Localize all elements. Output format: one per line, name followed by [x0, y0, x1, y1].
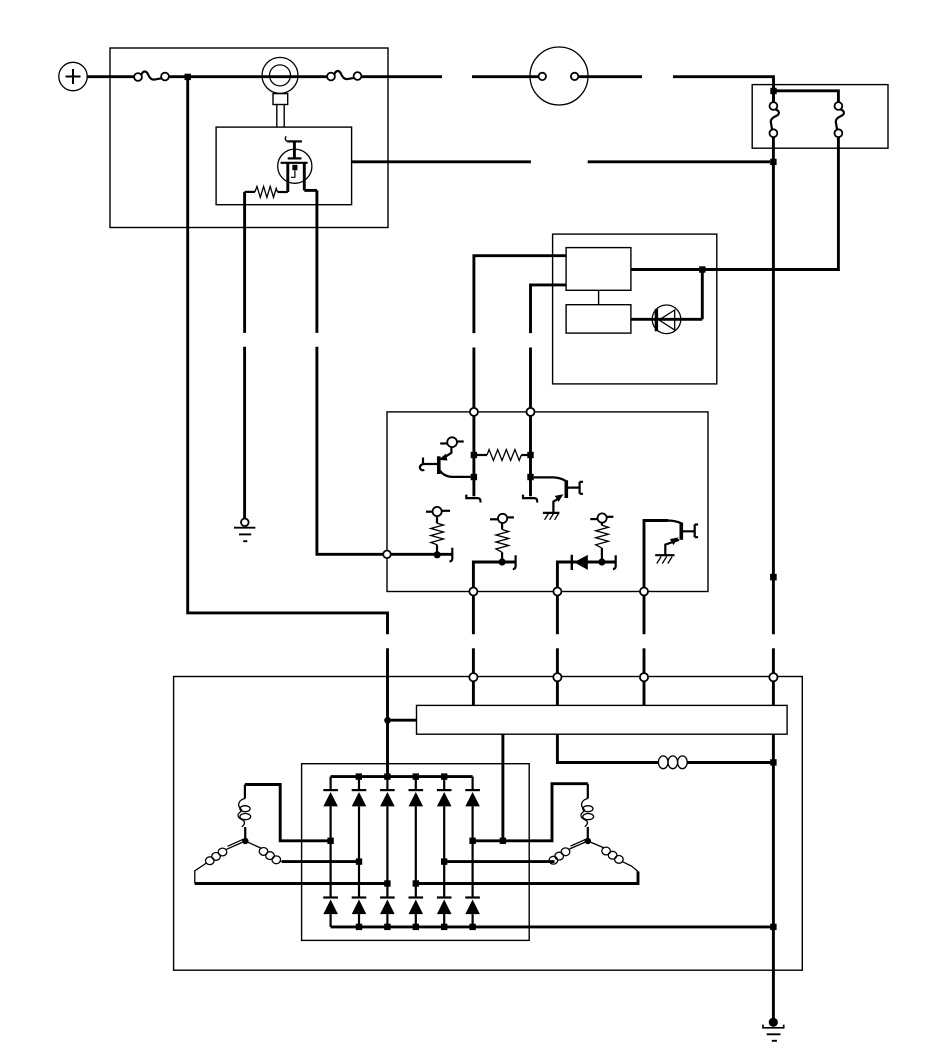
junction battery feed: [185, 74, 191, 80]
ELD output wire: [631, 268, 839, 271]
wire regulator terminal2 down: [556, 596, 559, 635]
ELD input wire 2: [531, 285, 567, 333]
right stator coil 3: [588, 841, 638, 872]
phase wire B left: [282, 860, 359, 863]
fusible link B: [327, 71, 361, 80]
wire dash to relay box: [673, 77, 774, 102]
diode column 6 top: [465, 777, 480, 898]
gauge assembly box: [110, 48, 388, 228]
ELD input wire 1: [474, 256, 566, 333]
junction brush bus: [384, 717, 391, 724]
phase wire A right: [473, 784, 588, 841]
diode column 2 bottom: [352, 898, 367, 927]
gauge unit legs: [288, 163, 305, 192]
right stator coil 1: [581, 784, 594, 841]
wire fuse C down long vertical: [772, 137, 775, 634]
wire regulator terminal3 down: [643, 596, 646, 635]
alternator box: [174, 677, 803, 971]
rectifier box: [302, 764, 530, 941]
top bus junctions: [356, 773, 362, 779]
junction alternator B wire: [770, 159, 776, 165]
field coil: [658, 756, 687, 769]
gauge unit circle: [278, 149, 312, 183]
diode column 1 top: [323, 777, 338, 898]
ELD sensor block: [566, 305, 631, 333]
pigtail terminal C combo1: [450, 548, 453, 562]
diode column 5 top: [437, 777, 452, 898]
gauge connector stem: [273, 94, 288, 128]
junction harness square: [770, 574, 777, 581]
junction relay feed: [770, 88, 776, 94]
wire fuse D down to ELD: [706, 137, 839, 270]
rectifier bottom bus: [331, 925, 774, 928]
junction field coil B: [770, 759, 776, 765]
wire gauge left leg down to ground: [243, 192, 246, 333]
rectifier top bus: [331, 775, 473, 778]
wire bus to rectifier right: [501, 734, 504, 841]
wire field coil to B line: [687, 761, 773, 764]
transistor Q4: [644, 521, 698, 592]
wire gauge unit to junction (left segment): [352, 160, 531, 163]
wire B line through alternator: [772, 734, 775, 1018]
pigtail terminal D1: [613, 555, 616, 569]
wire junction to brush bus: [388, 719, 417, 722]
pigtail terminal V1: [466, 495, 480, 503]
resistor gauge: [245, 186, 288, 197]
right stator coil 2: [549, 839, 588, 864]
transistor Q2: [534, 477, 583, 519]
diode column 4 top: [409, 777, 424, 898]
diode column 2 top: [352, 777, 367, 898]
ground alternator main: [763, 1018, 784, 1041]
junction ELD output: [699, 266, 705, 272]
diode column 4 bottom: [409, 898, 424, 927]
pigtail terminal V2: [523, 495, 537, 503]
junction bus feed right: [500, 838, 506, 844]
wire long B line down: [772, 648, 775, 673]
junction dots vertical1: [471, 452, 477, 458]
regulator terminal circles: [470, 408, 478, 416]
relay fuse box: [752, 85, 888, 149]
diode column 1 bottom: [323, 898, 338, 927]
diode column 6 bottom: [465, 898, 480, 927]
gauge unit contact element: [291, 165, 298, 178]
left stator coil 3: [245, 841, 282, 864]
alternator terminal circles: [469, 673, 477, 681]
fuse D: [835, 102, 844, 137]
regulator internal vertical 1: [472, 412, 475, 496]
wire battery to fuse A: [87, 75, 134, 78]
diode D1 with wire: [557, 555, 615, 592]
wire junction to fuse D: [776, 91, 838, 102]
resistor combo 2: [490, 514, 514, 566]
ELD control unit block: [566, 248, 631, 291]
ELD photocoupler: [652, 305, 681, 334]
resistor combo 3: [590, 513, 613, 565]
phase wire C right: [416, 872, 638, 884]
wire bus to field coil: [557, 734, 658, 762]
phase junction dots: [327, 838, 333, 844]
diode column 3 bottom: [380, 898, 395, 927]
wire gauge right leg to regulator: [304, 189, 317, 192]
diode column 5 bottom: [437, 898, 452, 927]
transistor Q1: [420, 437, 471, 477]
left stator coil 1: [238, 785, 251, 841]
fusible link A: [134, 72, 169, 81]
wire combo2 to terminal: [473, 562, 515, 592]
gauge unit bimetal bars: [281, 158, 308, 162]
left stator coil 2: [195, 839, 246, 883]
ignition switch: [530, 47, 588, 105]
right stator centre: [585, 838, 591, 844]
brush/terminal bus rectangle: [417, 705, 788, 734]
battery positive terminal: [59, 62, 87, 90]
bottom bus junctions: [356, 924, 362, 930]
fuse C: [770, 102, 779, 137]
wire regulator terminal1 down: [472, 596, 475, 635]
ground gauge: [234, 519, 255, 542]
wire fuse A to gauge: [169, 75, 328, 78]
ELD photocoupler leads: [631, 270, 702, 320]
regulator internal vertical 2: [529, 412, 532, 496]
gauge unit inner box: [216, 127, 352, 205]
phase wire B right: [444, 860, 554, 863]
link control-sensor: [598, 290, 600, 304]
gauge unit heater stem: [285, 136, 302, 158]
ELD box: [553, 234, 717, 384]
voltage regulator box: [387, 412, 708, 592]
phase wire A left: [245, 785, 331, 841]
resistor combo 1: [426, 507, 450, 559]
pigtail terminal combo2: [513, 555, 516, 569]
junction dots vertical2: [527, 452, 533, 458]
left stator centre: [242, 838, 248, 844]
wire switch to dash break: [578, 75, 642, 78]
wire junction down (B+ drop): [188, 80, 388, 634]
phase wire C left: [195, 882, 388, 885]
gauge voltmeter double circle: [262, 57, 298, 93]
wire dash to ignition switch: [472, 75, 539, 78]
wire gauge unit to junction (right segment): [588, 160, 771, 163]
wire fuse B to dash break: [361, 75, 442, 78]
diode column 3 top: [380, 777, 395, 898]
resistor R1: [474, 450, 531, 461]
wire B+ into alternator: [386, 648, 389, 776]
